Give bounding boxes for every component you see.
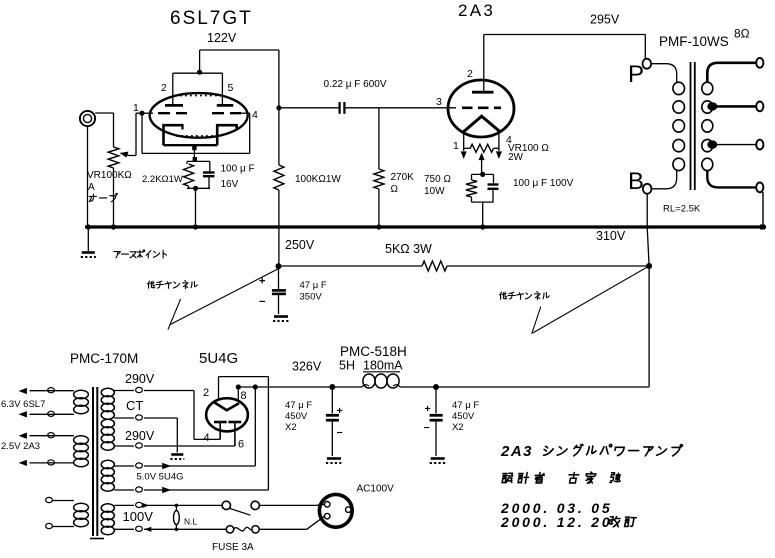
OPT secondary top lead	[707, 63, 756, 82]
label 326V	[292, 360, 322, 374]
PT core	[90, 387, 104, 539]
svg-text:6SL7GT: 6SL7GT	[170, 8, 253, 29]
label VR100 2W	[508, 143, 549, 163]
label 290V bottom	[125, 429, 155, 443]
label 47uF 450V X2 output	[452, 400, 479, 433]
label 47uF 450V X2 input	[285, 400, 312, 433]
pin label 4 of 2A3	[506, 134, 512, 146]
svg-text:2: 2	[203, 387, 209, 399]
PT 5V top lead	[114, 387, 255, 469]
wire 2A3 plate to OPT P	[484, 35, 646, 93]
wire bias RC bottom bar	[472, 202, 494, 227]
label 750 ohm	[424, 174, 451, 197]
tube V1 right plate	[217, 104, 234, 107]
tube 5U4G V3 envelope	[206, 398, 248, 431]
pin label 1 of 2A3	[453, 140, 459, 152]
svg-text:450V: 450V	[452, 411, 475, 422]
junction hum pot wiper node	[480, 172, 485, 177]
label 180mA	[363, 359, 403, 373]
svg-text:2A3: 2A3	[500, 443, 533, 460]
OPT secondary terminal 2	[756, 102, 763, 112]
label 5H	[339, 359, 355, 373]
label other channel right (katakana)	[500, 292, 550, 300]
svg-text:CT: CT	[126, 398, 143, 413]
svg-text:4: 4	[252, 109, 258, 121]
svg-text:P: P	[628, 61, 644, 88]
svg-text:+: +	[337, 405, 343, 417]
svg-text:270K: 270K	[391, 172, 415, 183]
svg-text:2.2KΩ1W: 2.2KΩ1W	[142, 174, 183, 185]
tube V3 right plate	[228, 422, 241, 446]
wire bias RC top bar	[472, 173, 494, 175]
wire plate to 122V rail	[200, 50, 279, 108]
svg-text:X2: X2	[452, 422, 464, 433]
svg-text:PMC-518H: PMC-518H	[340, 344, 407, 359]
svg-text:180mA: 180mA	[363, 359, 403, 373]
designer label kanji	[501, 472, 621, 483]
other channel line left	[168, 269, 279, 330]
PT 5V bottom lead	[114, 377, 268, 494]
svg-text:290V: 290V	[125, 372, 155, 386]
label FUSE 3A	[212, 542, 254, 553]
tube 2A3 V2 envelope	[448, 80, 514, 137]
label plus input cap	[337, 405, 343, 417]
choke PMC-518H	[362, 374, 400, 388]
svg-text:100V: 100V	[123, 509, 154, 524]
label 100uF 100V	[513, 178, 574, 189]
earth point symbol	[81, 227, 96, 257]
tube 2A3 label	[458, 1, 495, 20]
svg-text:100KΩ1W: 100KΩ1W	[295, 174, 341, 185]
junction secondary ground	[760, 225, 765, 230]
tube V1 right grid	[212, 112, 241, 114]
svg-text:2: 2	[467, 68, 473, 80]
svg-text:2: 2	[161, 82, 167, 94]
PT 2.5V winding	[74, 436, 89, 467]
filament lead left with down arrow	[461, 132, 467, 159]
ground bus	[85, 225, 766, 228]
label 100K 1W	[295, 174, 341, 185]
pin label 4	[252, 109, 258, 121]
svg-text:326V: 326V	[292, 360, 322, 374]
wire cathode RC to ground bus	[195, 188, 197, 227]
OPT P terminal loop	[643, 59, 652, 69]
svg-text:PMC-170M: PMC-170M	[70, 351, 138, 366]
label minus output cap	[424, 422, 430, 434]
resistor 5K 3W dropper	[422, 261, 447, 271]
capacitor 100uF 100V bias	[488, 174, 499, 202]
junction 5V top lead B+	[253, 384, 258, 389]
svg-text:16V: 16V	[221, 179, 239, 190]
wire cathode to RC	[193, 145, 195, 159]
neon lamp N.L	[174, 504, 180, 531]
svg-text:−: −	[259, 296, 265, 308]
tube V2 grid	[462, 107, 501, 110]
svg-text:N.L: N.L	[184, 517, 198, 527]
svg-text:310V: 310V	[596, 229, 626, 243]
label other channel left (katakana)	[148, 281, 198, 289]
node label 122V	[207, 31, 237, 45]
svg-text:295V: 295V	[590, 13, 620, 27]
svg-text:5U4G: 5U4G	[199, 350, 238, 367]
svg-text:2A3: 2A3	[458, 1, 495, 20]
PT CT lead	[114, 415, 177, 453]
junction choke output node	[433, 384, 439, 390]
junction pin8 B+	[236, 384, 241, 389]
label 2.5V 2A3	[1, 441, 40, 452]
tube V3 filament	[215, 403, 240, 411]
PT 100V top lead	[114, 502, 222, 508]
resistor 270K grid leak	[374, 108, 384, 227]
OPT secondary terminal 4	[756, 183, 763, 193]
svg-text:250V: 250V	[285, 238, 315, 252]
OPT secondary tap 1 blob	[707, 102, 717, 110]
PT spare winding	[74, 503, 89, 526]
PT 6.3V bottom lead	[19, 411, 75, 417]
label plus decoupling	[259, 276, 265, 288]
tube V1 left grid	[158, 112, 187, 114]
tube V1 bottom dotted line	[176, 135, 220, 137]
svg-text:X2: X2	[285, 422, 297, 433]
wire RC top bar	[187, 159, 210, 161]
junction bias to ground bus	[480, 224, 485, 229]
svg-text:8Ω: 8Ω	[734, 27, 750, 41]
hum pot VR100 2W	[464, 144, 499, 152]
label VR100K	[87, 170, 132, 193]
PT 2.5V top lead	[19, 433, 75, 439]
wire jack tip to volume pot	[95, 113, 113, 147]
PT HV bottom lead 290V	[114, 443, 234, 448]
svg-text:122V: 122V	[207, 31, 237, 45]
capacitor 47uF 450V output	[430, 387, 443, 456]
resistor 2.2K 1W	[184, 161, 194, 188]
svg-text:2000. 12. 20: 2000. 12. 20	[500, 514, 612, 530]
date 2000.12.20 revised	[500, 514, 636, 530]
svg-text:Ω: Ω	[391, 184, 399, 195]
PT 6.3V top lead	[19, 388, 75, 395]
resistor 100K 1W plate load	[274, 108, 284, 266]
junction 250V node	[276, 263, 282, 269]
svg-text:2W: 2W	[508, 152, 524, 163]
pin label 2 of 5U4G	[203, 387, 209, 399]
tube V1 right cathode	[217, 124, 237, 145]
pin label 2	[161, 82, 167, 94]
pin label 8 of 5U4G	[241, 390, 247, 402]
tube V2 plate	[472, 91, 494, 94]
tube 6SL7GT V1 envelope	[150, 93, 248, 138]
svg-text:−: −	[337, 427, 343, 439]
svg-text:VR100KΩ: VR100KΩ	[87, 170, 132, 181]
label minus input cap	[337, 427, 343, 439]
svg-text:B: B	[628, 168, 644, 195]
tube V1 left plate	[165, 104, 183, 107]
OPT secondary winding	[702, 82, 713, 170]
junction cathode	[192, 146, 196, 150]
label 47uF 350V	[300, 280, 327, 303]
junction 310V node	[646, 263, 652, 269]
capacitor 100uF 16V	[203, 161, 215, 188]
svg-text:5H: 5H	[339, 359, 355, 373]
wire cathode join bar	[164, 144, 218, 146]
label B terminal	[628, 168, 644, 195]
svg-text:47 μ F: 47 μ F	[452, 400, 479, 411]
label AC100V	[357, 484, 395, 495]
AC connector AC100V	[319, 494, 352, 527]
PT HV top lead 290V	[114, 387, 194, 392]
svg-text:6.3V 6SL7: 6.3V 6SL7	[1, 399, 45, 410]
transformer PMF-10WS label	[659, 34, 729, 49]
OPT B terminal loop	[643, 184, 652, 194]
OPT core	[691, 62, 695, 190]
filament lead right with down arrow	[496, 132, 502, 159]
svg-text:5: 5	[228, 82, 234, 94]
wire fuse to connector	[259, 516, 324, 529]
capacitor 47uF 450V input	[326, 387, 339, 456]
label earth point (katakana)	[114, 250, 167, 258]
wire plate node to coupling cap	[279, 107, 339, 109]
label 0.22uF 600V	[324, 79, 387, 90]
PT 100V primary winding	[101, 504, 114, 535]
OPT primary bottom lead	[652, 171, 677, 189]
svg-text:0.22 μ F 600V: 0.22 μ F 600V	[324, 79, 387, 90]
PT 6.3V winding	[74, 390, 89, 413]
tube V3 left plate	[214, 422, 227, 439]
svg-text:1: 1	[453, 140, 459, 152]
label 295V	[590, 13, 620, 27]
pin label 5	[228, 82, 234, 94]
hum pot wiper with up arrow	[479, 153, 485, 175]
ground input cap	[326, 459, 342, 464]
wire 290V top to pin4	[194, 391, 220, 440]
label 6.3V 6SL7	[1, 399, 45, 410]
OPT tap1 wire	[716, 105, 756, 108]
label P terminal	[628, 61, 644, 88]
pin label 4 of 5U4G	[204, 432, 210, 444]
svg-text:−: −	[424, 422, 430, 434]
svg-text:3: 3	[436, 96, 442, 108]
OPT secondary terminal 1	[756, 58, 763, 68]
OPT secondary bottom lead	[707, 171, 756, 187]
resistor 750 ohm 10W	[466, 174, 477, 202]
OPT primary winding	[673, 82, 685, 170]
tube 5U4G label	[199, 350, 238, 367]
wire secondary return to ground bus	[762, 192, 764, 227]
other channel line right	[532, 266, 649, 334]
label 5.0V 5U4G	[137, 472, 184, 483]
title katakana single power amp	[543, 444, 682, 456]
svg-text:1: 1	[133, 102, 139, 114]
tube V2 filament	[463, 116, 501, 132]
pin label 2 of 2A3	[467, 68, 473, 80]
tube V1 left cathode	[164, 124, 184, 145]
PT 2.5V bottom lead	[19, 460, 75, 466]
PT HV secondary winding	[101, 388, 114, 450]
junction RC bottom	[193, 186, 198, 191]
label 100uF	[221, 164, 255, 175]
volume pot wiper arrow	[120, 113, 143, 157]
svg-text:PMF-10WS: PMF-10WS	[659, 34, 729, 49]
date 2000.03.05	[500, 500, 612, 516]
PT spare top lead	[46, 497, 74, 502]
svg-text:5.0V 5U4G: 5.0V 5U4G	[137, 472, 184, 483]
svg-text:+: +	[425, 403, 431, 415]
PT 5V winding	[101, 460, 114, 491]
tube V3 pin2 lead and strap	[219, 377, 269, 400]
label 100V	[123, 509, 154, 524]
label 8 ohm	[734, 27, 750, 41]
power switch	[222, 501, 259, 515]
PT 100V bottom lead	[114, 526, 226, 532]
svg-text:100 μ F 100V: 100 μ F 100V	[513, 178, 574, 189]
pin label 1	[133, 102, 139, 114]
label plus output cap	[425, 403, 431, 415]
svg-text:8: 8	[241, 390, 247, 402]
wire grid tie pin1 to pin4	[142, 113, 250, 153]
label A curve (katakana)	[89, 193, 117, 201]
label 270K	[391, 172, 415, 195]
OPT secondary terminal 3	[756, 140, 763, 150]
label 16V	[221, 179, 239, 190]
volume pot VR100K	[108, 147, 119, 227]
wire RC bottom bar	[187, 187, 210, 189]
OPT primary top lead	[651, 64, 677, 82]
wire OPT B to 310V rail	[647, 194, 649, 266]
label minus decoupling	[259, 296, 265, 308]
capacitor 0.22uF 600V coupling	[340, 102, 345, 114]
label 250V	[285, 238, 315, 252]
input jack J1	[80, 111, 95, 126]
pin label 3	[436, 96, 442, 108]
tube V3 pin8 lead	[237, 387, 239, 401]
junction 326V node	[329, 384, 335, 390]
junction pot ground	[111, 224, 116, 229]
svg-text:47 μ F: 47 μ F	[285, 400, 312, 411]
svg-text:10W: 10W	[424, 186, 445, 197]
svg-text:4: 4	[204, 432, 210, 444]
label N.L	[184, 517, 198, 527]
svg-text:A: A	[88, 182, 95, 193]
tube V1 plate leads and strap	[173, 73, 223, 105]
B+ rail 250V to 310V	[279, 265, 650, 267]
junction cathode ground	[193, 224, 198, 229]
wire jack sleeve to ground bus	[87, 126, 89, 227]
OPT secondary tap 2 blob	[707, 140, 717, 148]
capacitor 47uF 350V	[272, 266, 286, 314]
node grid pin1	[139, 111, 144, 116]
junction cathode RC top	[193, 157, 197, 161]
label 2.2K 1W	[142, 174, 183, 185]
label RL=2.5K	[663, 204, 701, 215]
transformer PMC-170M label	[70, 351, 138, 366]
fuse FUSE 3A	[226, 526, 259, 533]
label 5K 3W	[385, 242, 432, 256]
title 2A3 single power amp - latin part	[500, 443, 533, 460]
OPT tap2 wire	[716, 144, 756, 146]
tube V1 top dotted line	[175, 95, 223, 97]
svg-text:FUSE 3A: FUSE 3A	[212, 542, 254, 553]
junction jack ground	[86, 224, 91, 229]
wire coupling cap to 2A3 grid	[344, 107, 456, 109]
junction plate node	[276, 105, 281, 110]
PT spare bottom lead	[46, 523, 74, 528]
wire switch to connector	[259, 504, 324, 505]
label 290V top	[125, 372, 155, 386]
svg-text:100 μ F: 100 μ F	[221, 164, 255, 175]
label CT	[126, 398, 143, 413]
svg-text:6: 6	[238, 439, 244, 451]
junction plate strap	[197, 70, 202, 75]
pin label 6 of 5U4G	[238, 439, 244, 451]
svg-text:5KΩ 3W: 5KΩ 3W	[385, 242, 432, 256]
ground decoupling cap	[273, 317, 289, 322]
svg-text:750 Ω: 750 Ω	[424, 174, 451, 185]
label 310V	[596, 229, 626, 243]
ground output cap	[430, 459, 446, 464]
label PMC-518H	[340, 344, 407, 359]
svg-text:350V: 350V	[300, 292, 323, 303]
ground CT	[170, 455, 184, 460]
svg-text:450V: 450V	[285, 411, 308, 422]
svg-text:AC100V: AC100V	[357, 484, 395, 495]
svg-text:2.5V 2A3: 2.5V 2A3	[1, 441, 40, 452]
tube 6SL7GT label	[170, 8, 253, 29]
junction 270K to ground bus	[376, 224, 381, 229]
svg-text:47 μ F: 47 μ F	[300, 280, 327, 291]
svg-text:RL=2.5K: RL=2.5K	[663, 204, 701, 215]
B+ line from rectifier	[238, 266, 649, 387]
svg-text:290V: 290V	[125, 429, 155, 443]
